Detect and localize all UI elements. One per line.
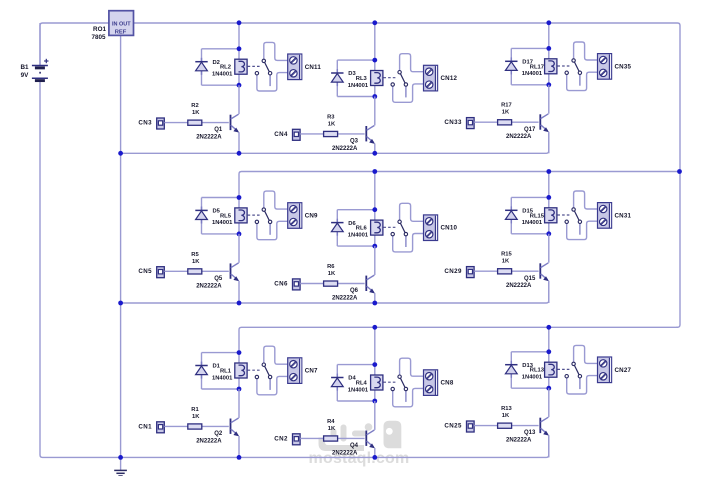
svg-text:Q1: Q1 bbox=[214, 127, 223, 133]
svg-text:1K: 1K bbox=[192, 259, 200, 265]
svg-text:CN7: CN7 bbox=[305, 368, 318, 375]
svg-text:RL1: RL1 bbox=[220, 369, 232, 375]
svg-text:Q2: Q2 bbox=[214, 431, 223, 437]
svg-text:R1: R1 bbox=[191, 407, 199, 413]
svg-text:2N2222A: 2N2222A bbox=[196, 438, 222, 444]
svg-text:1N4001: 1N4001 bbox=[212, 72, 233, 78]
svg-text:Q5: Q5 bbox=[214, 276, 223, 282]
svg-text:2N2222A: 2N2222A bbox=[196, 135, 222, 141]
svg-text:CN10: CN10 bbox=[441, 225, 458, 232]
svg-text:CN12: CN12 bbox=[441, 75, 458, 82]
svg-text:CN2: CN2 bbox=[274, 435, 288, 442]
svg-text:Q4: Q4 bbox=[350, 443, 359, 449]
svg-text:1K: 1K bbox=[328, 426, 336, 432]
svg-text:1K: 1K bbox=[502, 413, 510, 419]
svg-text:R5: R5 bbox=[191, 252, 199, 258]
svg-text:RL13: RL13 bbox=[530, 368, 545, 374]
svg-text:R3: R3 bbox=[327, 114, 335, 120]
svg-text:2N2222A: 2N2222A bbox=[196, 283, 222, 289]
svg-text:CN29: CN29 bbox=[444, 268, 462, 275]
svg-text:CN25: CN25 bbox=[444, 423, 462, 430]
svg-text:1N4001: 1N4001 bbox=[348, 387, 369, 393]
svg-text:CN35: CN35 bbox=[615, 63, 632, 70]
svg-text:1K: 1K bbox=[192, 414, 200, 420]
svg-text:IN OUT: IN OUT bbox=[112, 21, 131, 27]
svg-text:RO1: RO1 bbox=[93, 26, 106, 33]
svg-text:R13: R13 bbox=[501, 406, 512, 412]
svg-text:R15: R15 bbox=[501, 252, 512, 258]
svg-text:R6: R6 bbox=[327, 264, 335, 270]
svg-text:Q6: Q6 bbox=[350, 288, 359, 294]
svg-text:CN33: CN33 bbox=[444, 119, 462, 126]
svg-text:9V: 9V bbox=[21, 72, 30, 79]
svg-text:2N2222A: 2N2222A bbox=[332, 296, 358, 302]
svg-text:CN11: CN11 bbox=[305, 64, 322, 71]
svg-text:Q3: Q3 bbox=[350, 139, 359, 145]
svg-text:1N4001: 1N4001 bbox=[212, 375, 233, 381]
svg-text:2N2222A: 2N2222A bbox=[506, 283, 532, 289]
svg-text:1N4001: 1N4001 bbox=[522, 220, 543, 226]
svg-text:mostaql.com: mostaql.com bbox=[309, 450, 410, 467]
svg-text:1N4001: 1N4001 bbox=[348, 83, 369, 89]
svg-text:RL2: RL2 bbox=[220, 65, 231, 71]
svg-text:CN9: CN9 bbox=[305, 213, 318, 220]
svg-text:RL4: RL4 bbox=[356, 381, 368, 387]
svg-text:2N2222A: 2N2222A bbox=[506, 134, 532, 140]
svg-text:1K: 1K bbox=[502, 259, 510, 265]
svg-text:Q15: Q15 bbox=[524, 276, 536, 282]
svg-text:1N4001: 1N4001 bbox=[348, 232, 369, 238]
svg-text:CN31: CN31 bbox=[615, 212, 632, 219]
svg-text:CN5: CN5 bbox=[138, 268, 152, 275]
svg-text:1K: 1K bbox=[328, 121, 336, 127]
svg-text:Q17: Q17 bbox=[524, 127, 536, 133]
svg-text:CN4: CN4 bbox=[274, 131, 288, 138]
svg-text:2N2222A: 2N2222A bbox=[332, 146, 358, 152]
svg-text:1K: 1K bbox=[502, 110, 510, 116]
svg-text:1K: 1K bbox=[328, 271, 336, 277]
svg-text:R2: R2 bbox=[191, 103, 198, 109]
svg-text:CN3: CN3 bbox=[138, 120, 152, 127]
svg-text:2N2222A: 2N2222A bbox=[506, 438, 532, 444]
svg-text:R4: R4 bbox=[327, 419, 335, 425]
svg-text:RL5: RL5 bbox=[220, 213, 232, 219]
svg-text:RL6: RL6 bbox=[356, 226, 368, 232]
svg-text:2N2222A: 2N2222A bbox=[332, 450, 358, 456]
svg-text:Q13: Q13 bbox=[524, 430, 536, 436]
svg-text:CN27: CN27 bbox=[615, 367, 632, 374]
svg-text:CN8: CN8 bbox=[441, 380, 454, 387]
svg-text:R17: R17 bbox=[501, 103, 512, 109]
svg-text:1K: 1K bbox=[192, 110, 200, 116]
svg-text:REF: REF bbox=[115, 30, 127, 36]
svg-text:CN1: CN1 bbox=[138, 423, 152, 430]
svg-text:B1: B1 bbox=[20, 64, 29, 71]
svg-text:7805: 7805 bbox=[91, 34, 106, 41]
svg-text:RL15: RL15 bbox=[530, 213, 545, 219]
svg-text:RL17: RL17 bbox=[530, 64, 544, 70]
svg-text:1N4001: 1N4001 bbox=[522, 71, 543, 77]
svg-text:CN6: CN6 bbox=[274, 280, 288, 287]
svg-text:1N4001: 1N4001 bbox=[522, 375, 543, 381]
svg-text:RL3: RL3 bbox=[356, 76, 368, 82]
svg-text:D2: D2 bbox=[213, 60, 220, 66]
svg-text:1N4001: 1N4001 bbox=[212, 220, 233, 226]
